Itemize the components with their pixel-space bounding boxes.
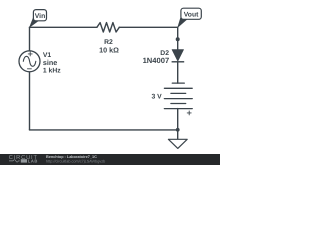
wire top from Vin corner to R2: [30, 26, 97, 28]
watermark logo CIRCUIT LAB: [9, 155, 38, 164]
svg-text:LAB: LAB: [28, 159, 38, 164]
svg-text:1 kHz: 1 kHz: [43, 68, 61, 75]
voltage source V1: [19, 51, 40, 72]
label V1 value: [43, 52, 61, 74]
svg-text:10 kΩ: 10 kΩ: [99, 45, 119, 54]
wire from R2 to Vout corner: [119, 26, 177, 28]
junction dot lower (ground node): [176, 128, 180, 132]
svg-text:3 V: 3 V: [151, 93, 162, 100]
svg-text:1N4007: 1N4007: [143, 56, 170, 65]
svg-text:Benchtop : Laboratoire7_1C: Benchtop : Laboratoire7_1C: [46, 155, 97, 159]
diode D2: [172, 50, 185, 62]
node flag Vin: [30, 10, 47, 27]
svg-text:Vout: Vout: [184, 11, 199, 18]
junction dot upper (diode node): [176, 37, 180, 41]
wire left vertical upper: [29, 27, 31, 51]
wire bottom: [30, 129, 178, 131]
svg-text:sine: sine: [43, 58, 57, 67]
wire right vertical to diode: [177, 27, 179, 49]
wire left vertical lower: [29, 72, 31, 130]
wire junction to ground: [177, 130, 179, 139]
battery V2 3V: [164, 83, 192, 115]
label D2 value: [143, 50, 170, 65]
node flag Vout: [178, 8, 201, 27]
ground: [168, 139, 187, 148]
label R2 value: [99, 39, 119, 54]
resistor R2: [97, 23, 119, 32]
wire diode to battery: [177, 62, 179, 83]
svg-text:http://circuitlab.com/c7jLSAVr: http://circuitlab.com/c7jLSAVrbgvzb: [46, 160, 105, 164]
svg-text:Vin: Vin: [35, 13, 45, 20]
watermark bar: [0, 154, 220, 165]
wire battery to bottom junction: [177, 109, 179, 130]
